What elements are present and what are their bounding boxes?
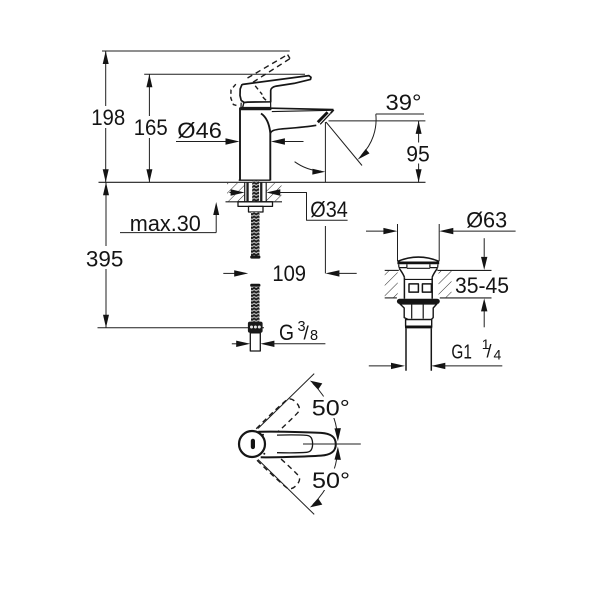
- top cap flange (dark band): [240, 107, 272, 110]
- handle top view outline: [258, 432, 336, 458]
- cap skirt: [399, 264, 438, 268]
- mounting hole edges: [244, 182, 246, 202]
- jet direction line: [326, 122, 362, 166]
- dimension 165: [131, 74, 171, 182]
- Ø63 extension lines: [397, 224, 399, 261]
- body left edge: [239, 108, 241, 181]
- extension line top (height 198 ref): [102, 50, 290, 52]
- 39 deg arc right with leader: [358, 90, 424, 160]
- valve lock nut: [400, 304, 437, 320]
- slab bottom line: [226, 201, 283, 203]
- valve tail pipe: [406, 328, 431, 370]
- 39 deg arc left: [295, 162, 326, 175]
- G3/8 hose nut: [248, 322, 263, 333]
- spout top edge: [271, 108, 334, 109]
- mounting nut: [249, 206, 264, 212]
- dashed lever position down: [256, 447, 303, 492]
- svg-text:max.30: max.30: [130, 211, 201, 236]
- aerator end face line: [320, 113, 330, 124]
- jet reference vertical line: [324, 122, 326, 182]
- svg-text:165: 165: [134, 115, 168, 140]
- svg-text:4: 4: [494, 347, 502, 363]
- junction dots: [262, 434, 264, 436]
- 50 deg upper: axis line, arc, arrows: [258, 374, 353, 442]
- svg-text:39°: 39°: [386, 90, 422, 115]
- valve flange (dark capsule): [397, 299, 440, 304]
- valve body sides: [404, 277, 432, 299]
- spout tip corner: [331, 110, 334, 113]
- dimension Ø46 leader + text: [176, 118, 304, 145]
- shank sleeve walls: [246, 182, 248, 202]
- faucet dashed raised lever: [248, 55, 291, 83]
- handle knob circle: [239, 431, 265, 457]
- bottom reference line (hose end level): [98, 327, 265, 329]
- drain valve cap dome: [398, 257, 439, 261]
- svg-text:Ø63: Ø63: [466, 208, 507, 233]
- drain counter slab hatching: [385, 270, 492, 298]
- hose break lower cap: [250, 284, 260, 287]
- aerator (dark band): [318, 112, 328, 122]
- dimension 109: [223, 226, 356, 286]
- valve body inner line: [404, 278, 432, 280]
- knob slot: [251, 439, 255, 449]
- washer plate: [238, 202, 273, 207]
- slab bottom lines: [385, 297, 397, 299]
- body right edge with spout fillet: [261, 114, 270, 181]
- spout bottom edge: [270, 125, 316, 133]
- dashed hidden edges inside lever: [255, 86, 267, 101]
- dimension 35-45: [455, 238, 509, 327]
- dimension max.30: [120, 202, 219, 236]
- valve bell flare: [399, 268, 437, 277]
- svg-text:Ø34: Ø34: [310, 197, 348, 222]
- hose end tube: [250, 333, 260, 351]
- cartridge dome sides: [241, 102, 271, 107]
- dimension Ø63: [366, 208, 516, 235]
- svg-text:50°: 50°: [312, 396, 350, 421]
- valve lower collar: [406, 320, 432, 327]
- svg-text:198: 198: [91, 105, 125, 130]
- dimension G3/8: [232, 319, 326, 347]
- counter top line: [99, 181, 426, 183]
- svg-text:G1: G1: [451, 341, 472, 364]
- svg-text:50°: 50°: [312, 468, 350, 493]
- dimension 395: [84, 182, 126, 327]
- svg-text:95: 95: [406, 142, 430, 167]
- flex hose lower segment: [251, 287, 260, 322]
- flex hose upper segment: [251, 212, 260, 256]
- dashed lever position up: [256, 396, 303, 441]
- svg-text:Ø46: Ø46: [177, 118, 222, 143]
- svg-text:G: G: [279, 320, 294, 345]
- svg-text:35-45: 35-45: [455, 273, 509, 298]
- lever knob chin: [242, 103, 244, 109]
- dimension Ø34 leader: [229, 189, 347, 222]
- cap rim (thick): [397, 261, 439, 264]
- dimension 95: [329, 121, 434, 182]
- slab top lines: [385, 269, 399, 271]
- faucet dashed raised knob: [231, 84, 239, 106]
- body base line: [239, 179, 271, 181]
- handle top view inner outline: [277, 435, 313, 453]
- counter slab hatching (faucet): [226, 181, 283, 202]
- extension line 165 ref: [144, 73, 305, 75]
- dimension 198: [88, 51, 128, 182]
- hose break upper cap: [250, 256, 260, 259]
- svg-text:109: 109: [272, 261, 306, 286]
- svg-text:/: /: [487, 342, 492, 362]
- centerline: [303, 443, 361, 445]
- 50 deg lower: axis line, arc, arrows: [258, 447, 353, 515]
- svg-text:8: 8: [310, 328, 318, 344]
- spout inner top edge: [272, 110, 332, 111]
- dimension G1 1/4: [369, 336, 503, 369]
- threaded stud through counter: [252, 181, 259, 202]
- faucet lever (solid): [240, 76, 311, 103]
- svg-text:395: 395: [86, 247, 124, 272]
- faucet body outline: [239, 107, 334, 180]
- valve windows: [409, 284, 418, 292]
- svg-text:/: /: [304, 324, 310, 345]
